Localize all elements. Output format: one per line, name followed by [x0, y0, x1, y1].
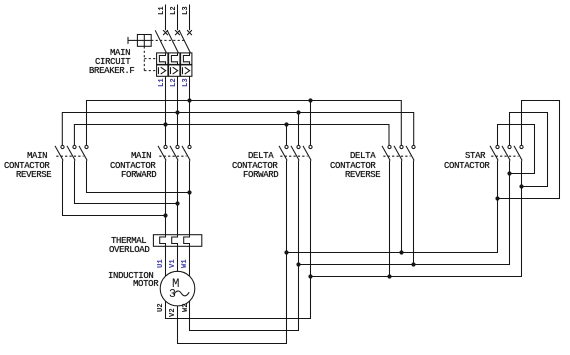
label OVERLOAD: [109, 246, 149, 255]
star contactor KM3 pole 3 blade: [514, 146, 522, 161]
main contactor reverse KM2 pole 2 fixed contact circle: [73, 145, 76, 148]
motor letter M: [172, 278, 180, 291]
label CONTACTOR (delta fwd contactor): [232, 162, 277, 171]
breaker pole 1 fixed contact X: [163, 30, 168, 35]
junction dot reverse pole1 / phase wire 1: [163, 213, 167, 217]
junction dot reverse pole3 / phase wire 3: [187, 190, 191, 194]
junction dot bus L1 / delta fwd pole 1 drop: [284, 122, 288, 126]
main contactor reverse KM2 pole 2 blade: [67, 146, 75, 161]
label CONTACTOR (star contactor): [444, 162, 489, 171]
breaker pole 1 magnetic trip symbol I>: [159, 67, 166, 74]
label L1 (supply, rotated): [159, 6, 166, 15]
label U1 (motor terminal, rotated, blue): [158, 260, 165, 269]
label BREAKER.F: [89, 67, 134, 76]
label L3 (supply, rotated): [183, 6, 190, 15]
wire forward pole 2 to motor terminal (with overload heater element 2): [172, 161, 178, 272]
breaker pole 3 thermal element: [183, 53, 189, 65]
main contactor reverse KM2 pole 1 fixed contact circle: [61, 145, 64, 148]
supply line L3 incoming wire: [189, 5, 191, 31]
label MAIN (reverse contactor): [27, 152, 47, 161]
bus L3 (top) with end drops: [87, 101, 402, 146]
main contactor forward KM1 pole 2 fixed contact circle: [176, 145, 179, 148]
breaker pole 2 thermal element: [171, 53, 177, 65]
label W1 (motor terminal, rotated, blue): [182, 260, 189, 269]
label CONTACTOR (delta rev contactor): [330, 162, 375, 171]
breaker pole 1 magnetic trip box: [157, 65, 168, 76]
junction dot H2 / delta rev pole 3: [411, 262, 415, 266]
breaker pole 1 output wire: [165, 76, 167, 145]
main contactor forward KM1 pole 1 blade: [158, 146, 166, 161]
wire delta fwd pole 3 down and to motor U2: [166, 161, 311, 319]
breaker linkage dashed to thermal row: [144, 58, 156, 60]
label FORWARD (forward contactor): [121, 171, 156, 180]
label CIRCUIT (breaker): [95, 58, 130, 67]
breaker pole 2 thermal trip box: [169, 53, 180, 65]
star pole 1 top loop to pole 2 bottom: [498, 125, 535, 174]
label MAIN (breaker): [110, 49, 130, 58]
thermal overload box: [153, 235, 201, 247]
breaker pole 3 thermal trip box: [181, 53, 192, 65]
delta contactor forward KM4 pole 3 fixed contact circle: [309, 145, 312, 148]
breaker pole 2 output wire: [177, 76, 179, 145]
breaker handle box cross vertical: [143, 35, 145, 47]
breaker pole 3 fixed contact X: [187, 30, 192, 35]
motor text 3: [169, 289, 176, 301]
delta contactor forward KM4 pole 1 fixed contact circle: [285, 145, 288, 148]
delta contactor reverse KM5 pole 1 blade: [382, 146, 390, 161]
breaker pole 2 magnetic trip symbol I>: [171, 67, 178, 74]
breaker pole 3 output wire: [189, 76, 191, 145]
main contactor reverse KM2 pole 3 blade: [79, 146, 87, 161]
delta contactor forward KM4 pole 3 blade: [303, 146, 311, 161]
label MOTOR: [133, 280, 158, 289]
breaker pole 3 magnetic trip box: [181, 65, 192, 76]
delta fwd pole 3 supply drop: [310, 101, 312, 146]
label REVERSE (delta rev contactor): [345, 171, 380, 180]
breaker linkage dashed horizontal (handle to poles): [151, 39, 186, 41]
label L2 (supply, rotated): [171, 6, 178, 15]
label THERMAL: [111, 237, 146, 246]
delta contactor reverse KM5 pole 2 fixed contact circle: [400, 145, 403, 148]
breaker pole 3 magnetic trip symbol I>: [183, 67, 190, 74]
delta contactor reverse KM5 pole 1 fixed contact circle: [388, 145, 391, 148]
breaker pole 1 thermal trip box: [157, 53, 168, 65]
main contactor forward KM1 mechanical linkage (dashed): [159, 155, 186, 157]
label DELTA (delta fwd contactor): [248, 152, 273, 161]
delta contactor forward KM4 pole 2 fixed contact circle: [297, 145, 300, 148]
main contactor forward KM1 pole 3 fixed contact circle: [188, 145, 191, 148]
delta contactor reverse KM5 pole 3 fixed contact circle: [412, 145, 415, 148]
bus L1 (bottom) with end drops: [74, 125, 389, 146]
breaker linkage dashed vertical: [143, 46, 145, 70]
wire forward pole 3 to motor terminal (with overload heater element 3): [184, 161, 190, 277]
star pole 3 top loop to pole 1 bottom: [498, 101, 560, 199]
label V2 (motor terminal, rotated): [170, 309, 177, 318]
breaker handle box cross horizontal: [137, 39, 151, 41]
link wire H3 (delta fwd pole3 - delta rev pole1 - star pole3): [311, 161, 522, 277]
label INDUCTION: [108, 272, 153, 281]
delta rev pole 2 lower wire: [401, 161, 403, 253]
junction dot H1 / delta fwd pole 1: [284, 250, 288, 254]
breaker pole 1 blade: [155, 30, 166, 53]
main contactor forward KM1 pole 1 fixed contact circle: [164, 145, 167, 148]
breaker pole 2 magnetic trip box: [169, 65, 180, 76]
breaker linkage dashed to magnetic row: [144, 70, 156, 72]
junction dot H2 / delta fwd pole 2: [296, 262, 300, 266]
main contactor reverse KM2 mechanical linkage (dashed): [56, 155, 83, 157]
breaker handle box: [137, 35, 151, 47]
star pole 2 top loop to pole 3 bottom: [510, 113, 548, 187]
junction dot star pole 1 lower wire: [495, 196, 499, 200]
label MAIN (forward contactor): [131, 152, 151, 161]
junction dot bus L1 / breaker pole 1: [163, 122, 167, 126]
label U2 (motor terminal, rotated): [158, 303, 165, 312]
label DELTA (delta rev contactor): [350, 152, 375, 161]
delta contactor reverse KM5 mechanical linkage (dashed): [383, 155, 410, 157]
induction motor M circle: [160, 271, 195, 306]
label L3 (breaker output, rotated, blue): [183, 78, 190, 87]
breaker pole 2 fixed contact X: [175, 30, 180, 35]
junction dot star pole 3 lower wire: [519, 184, 523, 188]
delta rev pole 3 lower wire: [413, 161, 415, 265]
breaker pole 2 blade: [167, 30, 178, 53]
star contactor KM3 pole 2 blade: [502, 146, 510, 161]
star contactor KM3 mechanical linkage (dashed): [491, 155, 518, 157]
label W2 (motor terminal, rotated): [183, 304, 190, 313]
main contactor forward KM1 pole 2 blade: [170, 146, 178, 161]
junction dot H3 / delta rev pole 1: [387, 274, 391, 278]
junction dot star pole 2 lower wire: [507, 171, 511, 175]
wire reverse pole 1 to forward pole 1: [63, 161, 166, 216]
delta contactor forward KM4 pole 1 blade: [279, 146, 287, 161]
wire delta fwd pole 2 down and to motor W2: [190, 161, 299, 331]
wire delta fwd pole 1 down and to motor V2: [178, 161, 287, 344]
star contactor KM3 pole 1 blade: [490, 146, 498, 161]
delta contactor forward KM4 mechanical linkage (dashed): [280, 155, 307, 157]
junction dot bus L3 / breaker pole 3: [187, 98, 191, 102]
delta fwd pole 2 supply drop: [298, 113, 300, 146]
label V1 (motor terminal, rotated, blue): [170, 260, 177, 269]
label FORWARD (delta fwd contactor): [243, 171, 278, 180]
junction dot H3 / delta fwd pole 3: [308, 274, 312, 278]
bus L2 (middle) with end drops: [62, 113, 413, 146]
link wire H2 (delta fwd pole2 - delta rev pole3 - star pole2): [299, 161, 510, 265]
main contactor reverse KM2 pole 3 fixed contact circle: [85, 145, 88, 148]
label L2 (breaker output, rotated, blue): [171, 78, 178, 87]
star contactor KM3 pole 2 fixed contact circle: [508, 145, 511, 148]
label L1 (breaker output, rotated, blue): [159, 78, 166, 87]
label STAR (star contactor): [465, 152, 485, 161]
delta contactor reverse KM5 pole 2 blade: [394, 146, 402, 161]
label CONTACTOR (forward contactor): [110, 162, 155, 171]
junction dot bus L3 / delta fwd pole 3 drop: [308, 98, 312, 102]
supply line L2 incoming wire: [177, 5, 179, 31]
wire reverse pole 2 to forward pole 2: [75, 161, 178, 204]
junction dot reverse pole2 / phase wire 2: [175, 201, 179, 205]
motor AC tilde: [174, 291, 190, 296]
star contactor KM3 pole 1 fixed contact circle: [496, 145, 499, 148]
breaker pole 1 thermal element: [159, 53, 165, 65]
supply line L1 incoming wire: [165, 5, 167, 31]
wire reverse pole 3 to forward pole 3: [87, 161, 190, 193]
wire forward pole 1 to motor terminal (with overload heater element 1): [160, 161, 166, 277]
junction dot bus L2 / breaker pole 2: [175, 110, 179, 114]
label REVERSE (reverse contactor): [16, 171, 51, 180]
breaker handle lead tick: [127, 37, 129, 44]
junction dot H1 / delta rev pole 2: [399, 250, 403, 254]
breaker pole 3 blade: [179, 30, 190, 53]
delta contactor reverse KM5 pole 3 blade: [406, 146, 414, 161]
delta contactor forward KM4 pole 2 blade: [291, 146, 299, 161]
breaker handle lead: [128, 39, 137, 41]
delta fwd pole 1 supply drop: [286, 125, 288, 146]
label CONTACTOR (reverse contactor): [4, 162, 49, 171]
junction dot bus L2 / delta fwd pole 2 drop: [296, 110, 300, 114]
main contactor forward KM1 pole 3 blade: [182, 146, 190, 161]
delta rev pole 1 lower wire: [389, 161, 391, 277]
main contactor reverse KM2 pole 1 blade: [55, 146, 63, 161]
star contactor KM3 pole 3 fixed contact circle: [520, 145, 523, 148]
link wire H1 (delta fwd pole1 - delta rev pole2 - star pole1): [287, 161, 498, 253]
